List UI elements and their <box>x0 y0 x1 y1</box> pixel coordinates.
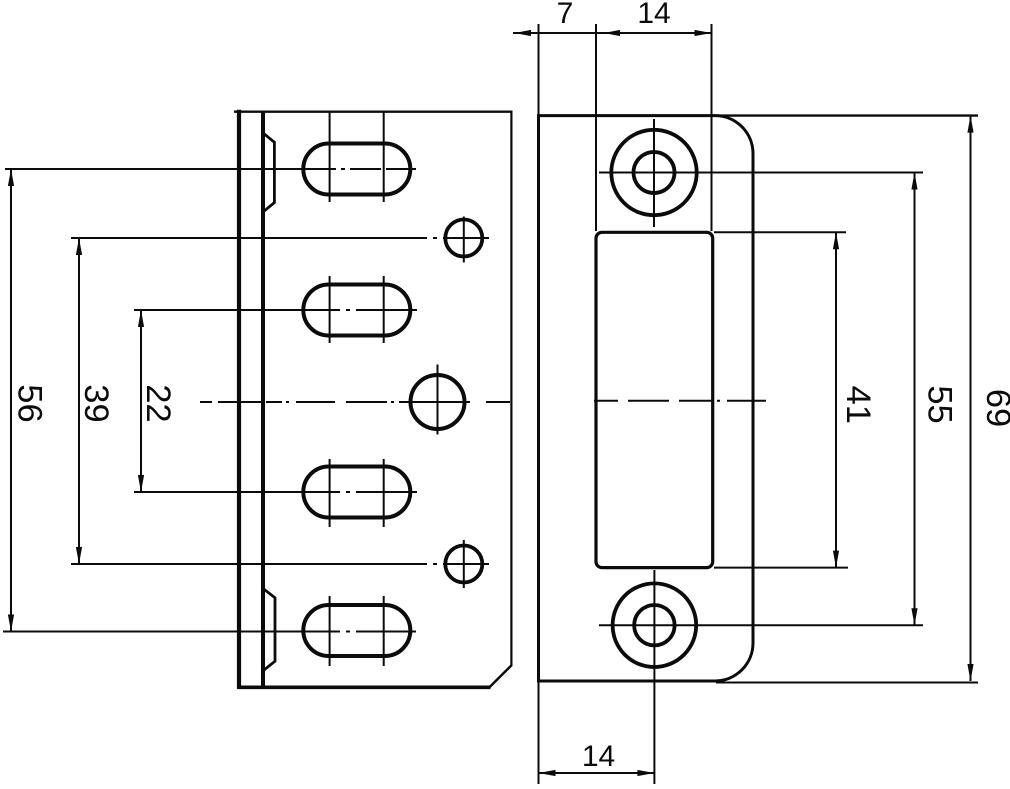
svg-text:7: 7 <box>557 0 574 30</box>
svg-text:14: 14 <box>582 740 615 773</box>
svg-text:41: 41 <box>839 386 877 424</box>
svg-text:55: 55 <box>921 385 959 423</box>
svg-text:56: 56 <box>10 384 48 422</box>
svg-text:69: 69 <box>979 389 1010 427</box>
svg-text:14: 14 <box>637 0 670 30</box>
svg-text:39: 39 <box>77 384 115 422</box>
svg-text:22: 22 <box>139 384 177 422</box>
